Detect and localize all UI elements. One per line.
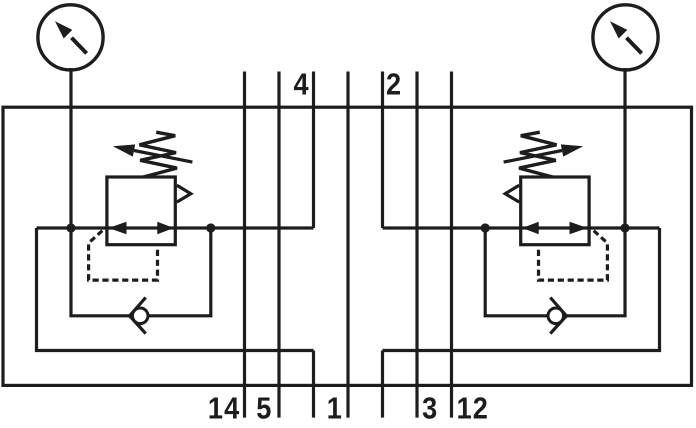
node: junction J4 (481, 223, 490, 232)
wire: channel line port 5 (277, 72, 280, 418)
check valve V2 ball (548, 308, 564, 324)
wire: gauge G2 stem (623, 68, 626, 228)
regulator R1 adjusting spring (140, 132, 177, 177)
regulator R2 flow arrow (right) (522, 222, 539, 235)
regulator R2 pilot line (dashed) (539, 231, 608, 280)
label: port 12 (457, 392, 489, 426)
regulator R2 adjusting spring (519, 132, 556, 177)
regulator R1 flow arrow (right) (157, 222, 174, 235)
pressure gauge G2 dial (593, 5, 658, 70)
gauge G1 needle (72, 38, 87, 54)
wire: regulator R1 flow line (37, 226, 314, 229)
regulator R1 relief vent chevron (177, 185, 191, 202)
label: port 2 (386, 68, 401, 102)
node: junction J2 (206, 223, 215, 232)
svg-text:14: 14 (208, 392, 240, 426)
label: port 14 (208, 392, 240, 426)
wire: channel line port 14 (243, 72, 246, 418)
wire: regulator R1 inlet riser (37, 228, 314, 351)
regulator R1 flow arrow (left) (108, 222, 126, 235)
svg-text:4: 4 (293, 68, 308, 102)
manifold body outline (3, 107, 692, 385)
regulator R2 relief vent chevron (505, 185, 519, 202)
wire: gauge G1 stem (69, 68, 72, 228)
svg-text:2: 2 (386, 68, 401, 102)
wire: regulator R2 flow line (383, 226, 660, 229)
label: port 1 (327, 392, 342, 426)
check valve V2 seat (550, 298, 566, 334)
wire: check valve V2 bypass loop (485, 228, 625, 316)
svg-text:5: 5 (256, 392, 271, 426)
label: port 4 (293, 68, 308, 102)
check valve V1 seat (130, 298, 146, 334)
wire: regulator R2 inlet riser (383, 228, 660, 351)
wire: channel line port 12 (450, 72, 453, 418)
regulator R2 flow arrow (left) (570, 222, 588, 235)
wire: port 2 channel (upper segment) (381, 72, 384, 229)
wire: check valve V1 bypass loop (71, 228, 211, 316)
pressure regulator R1 body (107, 177, 175, 245)
gauge G2 needle (627, 38, 642, 54)
label: port 3 (422, 392, 437, 426)
check valve V1 ball (132, 308, 148, 324)
svg-text:3: 3 (422, 392, 437, 426)
svg-text:12: 12 (457, 392, 489, 426)
label: port 5 (256, 392, 271, 426)
regulator R1 pilot line (dashed) (89, 231, 158, 280)
pressure regulator R2 body (521, 177, 589, 245)
svg-text:1: 1 (327, 392, 342, 426)
wire: regulator R1 supply branch (lower segment) (312, 351, 315, 418)
node: junction J1 (66, 223, 75, 232)
pressure gauge G1 dial (38, 5, 103, 70)
wire: channel line port 3 (415, 72, 418, 418)
wire: regulator R2 supply branch (lower segment) (381, 351, 384, 418)
wire: channel line port 1 (346, 72, 349, 418)
wire: port 4 channel (upper segment) (312, 72, 315, 229)
regulator R2 adjustment arrow (504, 151, 562, 163)
regulator R1 adjustment arrow (134, 151, 192, 163)
node: junction J3 (620, 223, 629, 232)
